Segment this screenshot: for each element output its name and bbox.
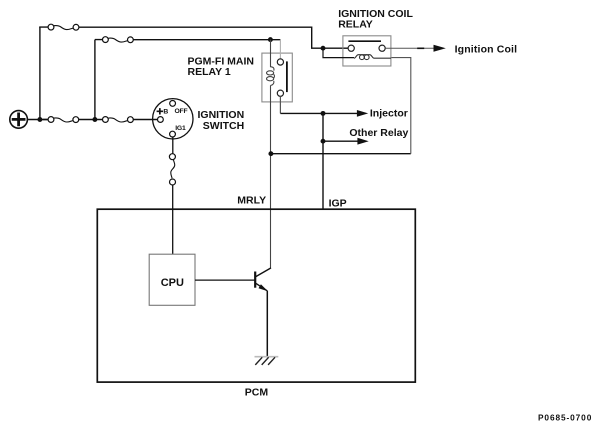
- wire branch to relay coil: [323, 48, 354, 57]
- ignition coil relay right terminal: [379, 45, 385, 51]
- svg-text:B: B: [163, 109, 168, 116]
- svg-text:CPU: CPU: [161, 277, 184, 289]
- svg-text:IG1: IG1: [175, 125, 186, 132]
- PCM box: [97, 209, 415, 382]
- pin label +B: [157, 108, 169, 115]
- node D junction dot: [321, 111, 326, 116]
- wire MRLY cross link: [271, 153, 411, 155]
- fuse F3: [48, 117, 79, 123]
- wire dark dash segment: [417, 47, 424, 49]
- ignition switch SW1 body: [153, 99, 193, 139]
- inline fuse F5 vertical connector top circle: [169, 154, 175, 160]
- ignition coil relay box: [343, 36, 391, 66]
- svg-text:Ignition Coil: Ignition Coil: [455, 43, 518, 55]
- svg-text:Injector: Injector: [370, 107, 408, 119]
- ground: [255, 357, 279, 365]
- arrow to Injector: [357, 110, 368, 117]
- wire IG1 down to connector: [172, 137, 174, 154]
- ignition switch terminal IG1: [170, 131, 176, 137]
- inline fuse F5 bottom circle: [170, 179, 176, 185]
- CPU box: [149, 254, 195, 305]
- PGM-FI main relay 1 box: [262, 53, 292, 102]
- battery B+: [10, 111, 28, 129]
- wire connector down to CPU: [172, 185, 174, 254]
- svg-text:MRLY: MRLY: [237, 195, 266, 207]
- node C junction dot on relay feed: [268, 37, 273, 42]
- svg-text:Other Relay: Other Relay: [349, 127, 408, 139]
- node G junction dot: [321, 46, 326, 51]
- node B junction dot: [92, 117, 97, 122]
- wire battery to node A: [27, 119, 48, 121]
- arrow to Ignition Coil: [434, 45, 446, 52]
- svg-text:SWITCH: SWITCH: [203, 120, 244, 132]
- arrow to Other Relay: [357, 138, 368, 145]
- PGM-FI relay contact bottom terminal: [277, 90, 283, 96]
- svg-text:RELAY 1: RELAY 1: [188, 66, 231, 78]
- wire top horizontal to ignition coil relay: [39, 27, 348, 48]
- ignition coil relay left terminal: [348, 45, 354, 51]
- wire ignition coil relay coil drop: [391, 58, 411, 154]
- inline fuse F5 squiggle: [171, 160, 175, 179]
- svg-text:P0685-0700: P0685-0700: [538, 412, 592, 422]
- ignition coil relay coil L2: [354, 55, 391, 60]
- transistor Q1 base bar: [254, 272, 256, 288]
- wire other relay feed: [323, 140, 358, 142]
- PGM-FI relay contact top terminal: [277, 59, 283, 65]
- svg-text:RELAY: RELAY: [338, 19, 373, 31]
- wire drop to relay contact (light): [279, 40, 281, 59]
- wire main feed to ignition switch: [43, 119, 158, 121]
- wire second horizontal to PGM-FI relay: [95, 39, 281, 41]
- wire emitter to ground: [266, 291, 268, 357]
- wire CPU to transistor base: [195, 279, 255, 281]
- ignition switch terminal +B: [158, 117, 164, 123]
- node F junction dot on MRLY line: [268, 151, 273, 156]
- wire to ignition coil arrow: [385, 47, 433, 49]
- transistor Q1 collector: [256, 268, 271, 277]
- wire IGP vertical: [322, 113, 324, 209]
- node E junction dot: [321, 139, 326, 144]
- ignition switch terminal OFF: [170, 101, 176, 107]
- node A junction dot: [37, 117, 42, 122]
- wire vertical riser top-left: [39, 27, 41, 119]
- transistor Q1 emitter with arrow: [256, 283, 267, 291]
- svg-text:IGP: IGP: [329, 198, 347, 210]
- wire contact bottom to injector line: [279, 96, 281, 113]
- svg-text:PCM: PCM: [245, 386, 269, 398]
- fuse F4: [103, 117, 134, 123]
- svg-text:OFF: OFF: [175, 108, 188, 115]
- fuse F1: [48, 24, 79, 30]
- fuse F2: [103, 37, 134, 43]
- PGM-FI relay coil L1: [267, 40, 275, 268]
- PGM-FI relay contact bar: [286, 61, 288, 92]
- wire injector feed: [280, 112, 357, 114]
- wire vertical riser x=95: [94, 40, 96, 120]
- ignition coil relay contact bar: [348, 40, 381, 42]
